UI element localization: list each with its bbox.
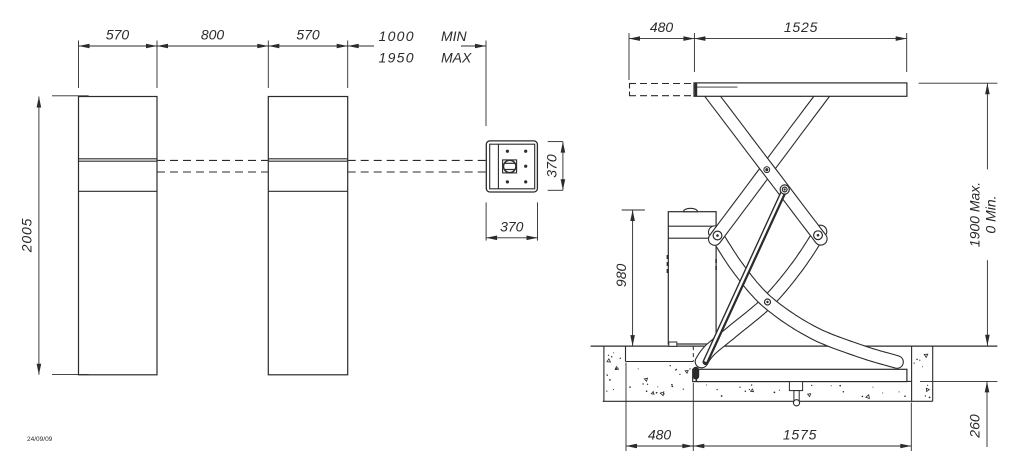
dimension 2005 (platform length) — [52, 95, 89, 97]
control box inner panel — [490, 144, 535, 189]
base frame of lift — [693, 369, 907, 381]
dimension 570 (left platform width) — [79, 45, 158, 47]
floor / ground line — [591, 345, 998, 347]
left middle pivot — [713, 231, 722, 240]
dimension 260 (pit depth) — [920, 380, 997, 382]
cabinet hinge marks — [667, 255, 669, 259]
extension lines of bottom dimensions — [625, 363, 627, 452]
dashed hose run between platforms — [157, 159, 268, 161]
platform dashed extension (drive-on ramp) — [629, 83, 694, 85]
svg-text:370: 370 — [500, 219, 524, 235]
svg-text:2005: 2005 — [19, 218, 35, 253]
svg-text:1525: 1525 — [784, 19, 818, 35]
svg-text:1000: 1000 — [379, 28, 415, 44]
svg-text:570: 570 — [106, 27, 130, 43]
motor mount square — [503, 160, 517, 173]
extension lines of top dimensions — [628, 33, 630, 80]
control box outer case — [486, 141, 537, 192]
svg-text:MIN: MIN — [441, 28, 468, 44]
svg-text:MAX: MAX — [441, 50, 472, 66]
cabinet right edge hidden marks — [715, 259, 717, 263]
dimension 570 (right platform width) — [268, 45, 347, 47]
cabinet top cap — [684, 208, 698, 211]
svg-text:570: 570 — [296, 27, 320, 43]
svg-text:800: 800 — [201, 27, 225, 43]
dimension 480 (platform overhang) — [629, 38, 694, 40]
base anchor stem — [794, 391, 799, 402]
control box panel divider — [497, 144, 499, 189]
dimension 1000 MIN / 1950 MAX (platform to control box) — [348, 45, 374, 47]
svg-text:1575: 1575 — [783, 427, 817, 443]
lower scissor centre pivot — [765, 299, 771, 305]
svg-text:0 Min.: 0 Min. — [983, 195, 999, 233]
left platform tread lines — [79, 158, 158, 160]
right platform tread lines — [268, 158, 347, 160]
upper scissor arm (platform right to left pivot) — [715, 91, 826, 240]
lower scissor arm (right pivot to base left) — [702, 232, 821, 362]
concrete hatch left block — [611, 356, 613, 358]
right middle pivot — [814, 231, 823, 240]
lower scissor arm (left pivot to base right) — [715, 232, 897, 362]
base anchor roller — [793, 400, 799, 406]
hidden edge at step — [692, 346, 694, 361]
svg-text:1900 Max.: 1900 Max. — [967, 182, 983, 247]
dimension 1525 (platform length) — [694, 38, 906, 40]
upper scissor centre pivot — [763, 166, 770, 173]
dimension 1575 (pit length) — [693, 445, 911, 447]
upper scissor arm (platform left to right pivot) — [708, 91, 821, 239]
concrete hatch right wall — [927, 385, 928, 386]
dimension 480 (pit step width) — [626, 445, 693, 447]
left platform (plan view) — [79, 97, 158, 375]
svg-text:980: 980 — [613, 264, 629, 288]
panel screws — [506, 150, 509, 153]
lift platform (side view) — [694, 83, 907, 96]
svg-text:260: 260 — [967, 414, 983, 439]
pit right wall inner face — [911, 346, 913, 401]
pit left outer wall — [603, 346, 605, 401]
svg-text:480: 480 — [650, 19, 674, 35]
base frame left end cap — [695, 369, 697, 381]
right platform (plan view) — [268, 97, 347, 375]
pit right wall outer face — [932, 346, 934, 401]
extension lines of platform width dimensions — [78, 41, 80, 89]
cylinder top pivot — [780, 185, 789, 194]
dimension 800 (gap between platforms) — [157, 45, 268, 47]
svg-text:24/09/09: 24/09/09 — [27, 436, 53, 443]
dimension 980 (cabinet height) — [622, 209, 645, 211]
pit bottom (concrete underside) — [603, 400, 933, 402]
pit step floor — [626, 361, 694, 363]
cabinet top panel lines — [668, 225, 716, 227]
dimension 370 (control box width) — [485, 202, 487, 240]
pit step wall — [625, 346, 627, 361]
pit floor — [693, 380, 911, 382]
concrete hatch bottom slab — [745, 391, 746, 392]
dimension 370 (control box height) — [548, 141, 563, 143]
base anchor fitting — [789, 382, 802, 391]
svg-text:370: 370 — [544, 154, 560, 178]
platform surface inner line — [694, 86, 738, 88]
dashed hose run platform to control box — [348, 159, 487, 161]
cabinet foot — [669, 342, 677, 346]
cylinder lower anchor (dark clevis) — [693, 367, 700, 380]
svg-text:480: 480 — [648, 427, 672, 443]
control cabinet body — [668, 212, 716, 344]
motor symbol circle — [504, 160, 516, 172]
platform left end cap — [695, 83, 698, 96]
hydraulic cylinder — [706, 190, 785, 363]
dimension 1900 Max / 0 Min (lift height) — [919, 82, 998, 84]
svg-text:1950: 1950 — [379, 50, 415, 66]
